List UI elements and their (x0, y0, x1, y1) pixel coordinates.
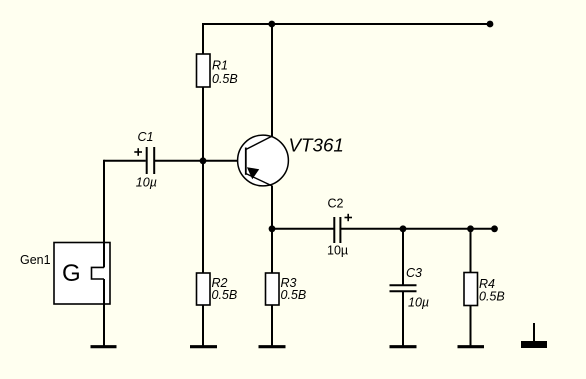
wire collector to rail (271, 24, 273, 137)
wire base node to transistor (203, 160, 246, 162)
wire top rail (202, 23, 490, 25)
ground chassis bottom right bar (521, 341, 547, 348)
wire emitter node to C2 (272, 228, 334, 230)
svg-text:10µ: 10µ (136, 176, 157, 190)
node R4 junction (467, 225, 474, 232)
svg-text:10µ: 10µ (408, 296, 429, 310)
ground under R3 (259, 345, 286, 348)
svg-text:C3: C3 (406, 266, 422, 280)
wire C1 to base node (155, 160, 203, 162)
svg-text:0.5B: 0.5B (281, 288, 307, 302)
svg-text:0.5B: 0.5B (479, 290, 505, 304)
ground under R4 (458, 345, 485, 348)
ground under R2 (190, 345, 217, 348)
node junction top collector (268, 21, 275, 28)
svg-text:VT361: VT361 (289, 135, 344, 156)
wire node to R4 (470, 229, 472, 273)
svg-text:0.5B: 0.5B (212, 72, 238, 86)
node emitter junction (269, 225, 276, 232)
wire node to R3 (271, 229, 273, 273)
svg-text:C2: C2 (328, 196, 344, 210)
generator Gen1 box (54, 243, 110, 305)
svg-text:0.5B: 0.5B (212, 288, 238, 302)
resistor R1 (197, 54, 211, 87)
svg-text:R1: R1 (212, 59, 228, 73)
node base junction (200, 157, 207, 164)
svg-text:Gen1: Gen1 (20, 253, 51, 267)
polarity plus C1 (134, 148, 142, 156)
wire R3 to ground (271, 305, 273, 346)
transistor VT361 (238, 135, 344, 186)
ground under Gen1 (91, 345, 117, 348)
connector notch on Gen1 (92, 267, 105, 279)
wire R1 to base node (202, 87, 204, 161)
wire notch to ground (103, 279, 105, 346)
resistor R3 (266, 273, 280, 305)
wire generator drop (103, 160, 105, 268)
ground under C3 (390, 345, 417, 348)
wire R4 to ground (470, 306, 472, 346)
resistor R4 (464, 273, 478, 306)
wire C2 to output (341, 228, 495, 230)
capacitor C1 (146, 147, 148, 174)
node top rail right end (487, 21, 494, 28)
node C3 junction (400, 225, 407, 232)
wire R2 to ground (202, 305, 204, 346)
wire C3 to ground (402, 292, 404, 346)
resistor R2 (197, 273, 211, 305)
polarity plus C2 (345, 214, 353, 221)
wire top rail to R1 (202, 23, 204, 55)
node output end (491, 225, 498, 232)
svg-text:C1: C1 (138, 130, 154, 144)
wire node to R2 (202, 161, 204, 273)
ground chassis bottom right stub (533, 323, 535, 341)
wire C1 left (104, 160, 146, 162)
wire node to C3 (402, 229, 404, 286)
svg-text:G: G (62, 260, 81, 287)
svg-text:10µ: 10µ (327, 244, 348, 258)
wire emitter to node (271, 186, 273, 230)
capacitor C2 (333, 217, 335, 243)
capacitor C3 (390, 284, 417, 286)
